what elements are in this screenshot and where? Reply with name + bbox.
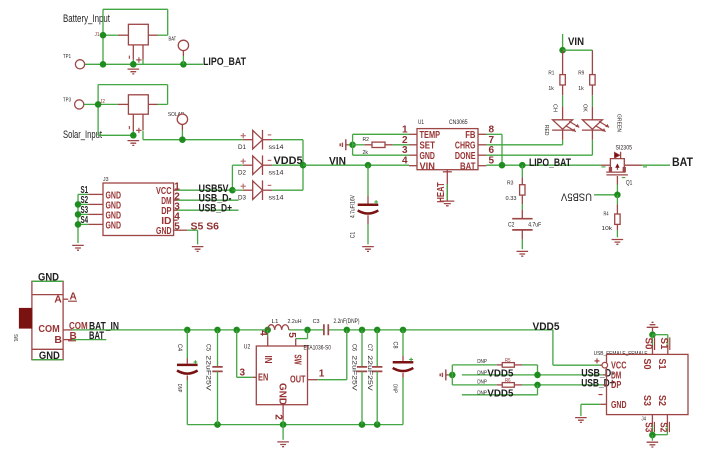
svg-text:OUT: OUT: [290, 373, 306, 385]
net label USB_D+: [199, 203, 233, 215]
xref label B: [68, 331, 77, 342]
wire TEMP SET GND loop: [353, 134, 409, 155]
tie symbol at R2: [340, 139, 352, 150]
ground USB GND: [575, 418, 587, 423]
diode D1: [238, 130, 284, 151]
wire S3 S2 bottom: [652, 425, 667, 435]
node S0 junction: [649, 331, 656, 338]
wire S0 S1 top: [653, 335, 668, 345]
wire VIN: [303, 164, 409, 166]
svg-text:J2: J2: [100, 99, 105, 105]
xref label A: [68, 292, 77, 303]
wire VIN to R9: [563, 49, 593, 51]
ground HEAT: [440, 201, 454, 206]
svg-text:DNP: DNP: [477, 370, 487, 376]
svg-text:DNP: DNP: [477, 379, 487, 385]
net label BAT: [672, 155, 694, 169]
svg-text:C3: C3: [313, 319, 320, 325]
svg-text:GND: GND: [277, 383, 289, 405]
ground R4: [612, 240, 624, 245]
wire R6 to DP: [522, 384, 603, 386]
wire GND pin 2: [273, 405, 284, 425]
wire diode cathodes bus: [272, 140, 303, 191]
svg-text:2.2nF(DNP): 2.2nF(DNP): [334, 319, 360, 325]
svg-text:4: 4: [258, 330, 269, 336]
node VIN junction at diodes: [300, 162, 307, 169]
svg-text:IN: IN: [262, 356, 274, 364]
svg-text:22uF25V: 22uF25V: [350, 355, 356, 391]
svg-text:USB_D+: USB_D+: [581, 378, 615, 390]
wire FB to BAT: [486, 134, 502, 165]
capacitor C7 22uF25V: [366, 330, 383, 425]
svg-text:R2: R2: [363, 137, 370, 143]
capacitor C2 4.7uF: [508, 204, 541, 249]
svg-text:GND: GND: [106, 219, 122, 231]
net label DNP VDD5 row4: [477, 388, 513, 400]
svg-text:R4: R4: [604, 212, 609, 218]
node DNP tie junction: [449, 372, 456, 379]
svg-text:10k: 10k: [602, 226, 613, 232]
svg-text:L1: L1: [272, 319, 279, 325]
wire S3 ground drop: [651, 435, 653, 441]
svg-text:CN3065: CN3065: [449, 119, 468, 126]
svg-text:C5: C5: [205, 344, 211, 352]
resistor R4 10k: [602, 195, 621, 238]
svg-text:S0: S0: [641, 359, 653, 370]
capacitor C5 22uF25V: [205, 330, 223, 425]
svg-text:2: 2: [402, 135, 408, 146]
node battery bottom junctions: [100, 61, 187, 68]
wire VDD5 stub DM row: [462, 374, 603, 376]
J3 right pins: [156, 181, 187, 236]
svg-text:GREEN: GREEN: [615, 114, 621, 132]
J3 left pin labels S1 S2 S3 S4: [78, 185, 88, 226]
wire IN pin 4: [258, 330, 269, 346]
LED OK GREEN: [582, 104, 622, 140]
net label USB_D-: [199, 193, 232, 205]
svg-text:VIN: VIN: [420, 160, 435, 172]
svg-text:1k: 1k: [578, 86, 584, 92]
node DM junction: [534, 372, 541, 379]
node DP junction: [534, 382, 541, 389]
svg-text:1k: 1k: [548, 86, 554, 92]
node solar gnd junction: [130, 131, 137, 139]
pin S3 S2 stubs: [652, 415, 667, 425]
svg-text:S3: S3: [642, 422, 653, 432]
resistor R2 2k: [363, 137, 393, 156]
xref label COM: [69, 321, 88, 332]
U1 HEAT pin: [436, 170, 452, 203]
node R2 junction: [349, 142, 356, 149]
svg-text:DNP: DNP: [477, 390, 487, 396]
wire USB_D+: [178, 209, 239, 211]
svg-text:VIN: VIN: [568, 36, 584, 48]
xref labels S0 S1 top: [643, 337, 670, 350]
svg-text:C2: C2: [508, 222, 515, 228]
svg-text:R3: R3: [507, 180, 514, 186]
wire VIN stub: [562, 34, 564, 50]
label Solar_Input: [63, 129, 102, 141]
net label USB5V: [199, 183, 230, 195]
wire USB5V: [178, 189, 233, 191]
xref labels S3 S2 bottom: [642, 422, 669, 433]
wire solar loop: [84, 85, 168, 136]
net label BAT at switch: [89, 330, 104, 342]
wire R5 to DM: [522, 365, 538, 375]
svg-text:CH: CH: [552, 104, 558, 112]
svg-text:R5: R5: [505, 358, 511, 364]
wire EN pin 3: [237, 330, 257, 379]
node S3 junction: [649, 432, 656, 439]
node VIN C1 junction: [365, 162, 372, 169]
svg-text:5: 5: [174, 221, 180, 232]
test pad SOLAR: [168, 112, 188, 140]
svg-text:SW: SW: [292, 354, 304, 364]
svg-text:C1: C1: [350, 231, 356, 238]
ground U2: [277, 442, 289, 447]
node gate junction: [614, 192, 621, 199]
wire BAT LIPO_BAT: [486, 164, 601, 166]
svg-text:3: 3: [240, 367, 246, 378]
pin VCC circle: [595, 358, 608, 368]
resistor R6 DNP: [477, 378, 522, 387]
node rail junctions: [184, 327, 406, 334]
pin S0 S1 stubs: [653, 345, 668, 355]
svg-text:R6: R6: [505, 378, 511, 384]
svg-text:S2: S2: [656, 395, 668, 406]
svg-text:J3: J3: [103, 177, 109, 183]
svg-text:ETA1036-S0: ETA1036-S0: [304, 345, 332, 352]
svg-text:R9: R9: [578, 70, 584, 76]
svg-text:VDD5: VDD5: [274, 155, 303, 167]
svg-text:4: 4: [402, 156, 408, 167]
svg-text:VDD5: VDD5: [487, 388, 513, 400]
svg-text:D3: D3: [238, 196, 247, 202]
svg-text:22uF25V: 22uF25V: [366, 355, 372, 391]
wire SW pin 5: [286, 330, 308, 346]
label Battery_Input: [63, 13, 110, 25]
svg-text:2k: 2k: [363, 150, 369, 156]
svg-text:VIN: VIN: [329, 156, 346, 168]
ground J3 pin5: [192, 247, 204, 252]
svg-text:S1: S1: [658, 338, 669, 350]
wire battery left: [103, 34, 118, 36]
wire VDD5 to VCC: [553, 330, 600, 365]
node solar junction: [95, 101, 102, 108]
svg-text:S1: S1: [656, 359, 668, 370]
node VIN top junction: [559, 47, 566, 54]
resistor R1 1k: [548, 50, 565, 106]
svg-text:C4: C4: [176, 344, 182, 352]
wire J3 gnd bus: [75, 194, 82, 243]
svg-text:22uF25V: 22uF25V: [205, 355, 211, 391]
test point TP1: [63, 54, 85, 69]
svg-text:ss14: ss14: [269, 145, 285, 151]
ground J3 left: [72, 245, 84, 250]
node USB5V junction: [229, 187, 243, 194]
svg-text:U2: U2: [244, 345, 251, 351]
ground C1: [362, 247, 374, 252]
svg-text:GND: GND: [39, 350, 60, 362]
node solar output junction: [179, 136, 186, 143]
svg-text:C8: C8: [392, 342, 398, 350]
svg-text:D1: D1: [238, 145, 247, 151]
svg-text:R1: R1: [548, 70, 554, 76]
svg-text:DNP: DNP: [176, 384, 182, 393]
wire solar output: [143, 130, 243, 139]
ground solar: [128, 141, 140, 146]
svg-text:BAT: BAT: [89, 330, 104, 342]
svg-text:DNP: DNP: [392, 384, 398, 393]
svg-text:0.33: 0.33: [506, 196, 517, 202]
svg-text:LIPO_BAT: LIPO_BAT: [529, 157, 571, 169]
svg-text:USB_D+: USB_D+: [199, 203, 233, 215]
svg-text:DP: DP: [611, 379, 621, 391]
svg-text:EN: EN: [258, 372, 268, 384]
svg-text:1: 1: [319, 368, 325, 379]
svg-text:S0: S0: [643, 338, 654, 350]
solar connector J2: [100, 95, 158, 133]
IC U2 ETA1036-S0: [244, 345, 331, 406]
pin DM DP stubs: [603, 375, 607, 385]
wire USB_D-: [178, 199, 239, 201]
wire switch GND top: [32, 280, 63, 282]
capacitor C4 DNP: [176, 330, 198, 425]
pin GND stub: [599, 395, 607, 405]
svg-text:BAT: BAT: [672, 155, 694, 169]
svg-text:Solar_Input: Solar_Input: [63, 129, 102, 141]
wire switch GND bottom: [32, 359, 63, 361]
svg-text:SI2305: SI2305: [616, 144, 633, 151]
diode D3: [238, 180, 284, 201]
svg-text:RED: RED: [543, 125, 549, 136]
wire ground rail: [187, 421, 403, 428]
inductor L1 2.2uH: [268, 319, 302, 330]
svg-text:TP1: TP1: [63, 54, 71, 60]
diode D2: [238, 155, 284, 176]
svg-text:S3: S3: [641, 395, 653, 406]
svg-text:ss14: ss14: [269, 171, 285, 177]
svg-text:ss14: ss14: [269, 196, 285, 202]
net label VIN: [329, 156, 346, 168]
svg-text:A: A: [54, 293, 62, 305]
test pad BAT: [169, 37, 189, 65]
svg-text:Q1: Q1: [626, 181, 633, 187]
wire GND to ground: [581, 404, 600, 416]
svg-text:D2: D2: [238, 171, 247, 177]
svg-text:OK: OK: [582, 104, 588, 112]
wire battery top loop: [103, 9, 168, 64]
svg-text:C6: C6: [350, 344, 356, 352]
wire U2 ground drop: [282, 425, 284, 440]
net label USB_D- right: [581, 368, 614, 380]
ground S0 S1 inverted: [647, 322, 659, 331]
node battery J1 junction: [100, 32, 107, 39]
net label GND top: [38, 272, 59, 284]
transistor Q1 SI2305: [601, 144, 647, 186]
svg-text:J1: J1: [95, 32, 100, 38]
test point TP3: [63, 98, 84, 110]
wire D2 anode: [232, 165, 242, 190]
connector J3: [103, 177, 174, 236]
resistor R9 1k: [578, 50, 595, 106]
IC U1 CN3065: [402, 119, 495, 172]
svg-text:TP3: TP3: [63, 98, 71, 104]
svg-text:GND: GND: [38, 272, 59, 284]
connector J4 USB_FEMALE_FEMALE: [594, 351, 688, 423]
wire VDD5 stub row4: [462, 385, 538, 395]
svg-text:VDD5: VDD5: [533, 321, 560, 333]
wire CHRG to red LED: [486, 140, 562, 145]
capacitor C3 2.2nF DNP: [313, 319, 360, 335]
capacitor C8 DNP: [392, 330, 414, 425]
svg-text:BAT: BAT: [169, 37, 177, 43]
switch SW1: [12, 281, 72, 359]
svg-text:2.2uH: 2.2uH: [288, 319, 302, 325]
label S5 S6 on pin 5: [191, 221, 220, 232]
net label DNP VDD5 row2: [477, 368, 513, 380]
resistor R3 0.33: [506, 165, 526, 204]
wire Q1 to BAT: [642, 164, 671, 166]
wire BAT_IN rail: [72, 329, 553, 331]
net label USB_D+ right: [581, 378, 615, 390]
node BAT junctions: [499, 162, 526, 169]
net label VIN top: [568, 36, 584, 48]
net label USB5V rotated: [560, 190, 592, 202]
svg-text:4.7uF/16V: 4.7uF/16V: [350, 195, 356, 218]
net label BAT_IN: [89, 320, 119, 332]
net label VDD5: [533, 321, 560, 333]
capacitor C1 4.7uF/16V: [350, 165, 378, 244]
resistor R5 DNP: [477, 358, 522, 367]
svg-text:1: 1: [402, 124, 408, 135]
svg-text:2: 2: [273, 414, 284, 420]
svg-text:GND: GND: [156, 225, 172, 237]
J3 left pins S1-S4: [88, 189, 121, 231]
wire Q1 gate USB5V: [594, 185, 617, 195]
ground C2: [517, 251, 529, 256]
svg-text:B: B: [54, 334, 62, 346]
net label LIPO_BAT: [203, 56, 246, 68]
ground battery: [128, 69, 140, 74]
svg-text:4.7uF: 4.7uF: [528, 222, 541, 228]
ground S3: [647, 442, 659, 447]
wire DNP bracket: [452, 365, 496, 385]
wire OUT pin 1: [308, 330, 347, 380]
svg-text:GND: GND: [611, 399, 627, 411]
svg-text:S2: S2: [657, 422, 668, 432]
svg-text:SW1: SW1: [12, 334, 18, 342]
svg-text:3: 3: [402, 145, 408, 156]
svg-text:BAT: BAT: [460, 160, 476, 172]
tie symbol DNP resistors: [440, 369, 452, 380]
svg-text:DNP: DNP: [477, 359, 487, 365]
net label LIPO_BAT at U1: [529, 157, 571, 169]
wire DONE to green LED: [486, 140, 592, 155]
svg-text:HEAT: HEAT: [436, 182, 447, 203]
net label VDD5 at D2: [274, 155, 303, 167]
svg-text:USB5V: USB5V: [560, 190, 592, 202]
wire BAT stub: [72, 339, 106, 341]
net label GND bottom: [39, 350, 60, 362]
capacitor C6 22uF25V: [350, 330, 367, 425]
wire battery bottom: [85, 60, 204, 65]
wire J3 pin5 to ground: [187, 230, 197, 244]
LED CH RED: [543, 104, 579, 140]
battery holder J1: [95, 24, 158, 64]
svg-text:LIPO_BAT: LIPO_BAT: [203, 56, 246, 68]
svg-text:5: 5: [286, 332, 297, 338]
svg-text:C7: C7: [366, 344, 372, 352]
svg-text:U1: U1: [418, 120, 425, 126]
